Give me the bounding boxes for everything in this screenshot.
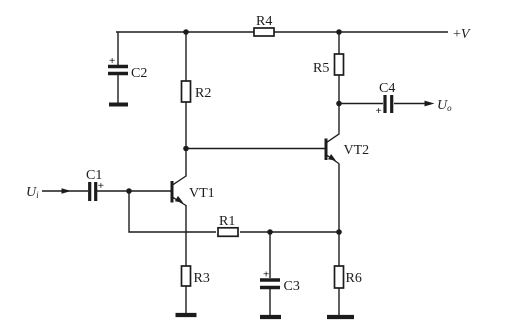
capacitor C2 xyxy=(108,55,147,81)
resistor R2 xyxy=(182,81,212,102)
capacitor C4 xyxy=(376,81,396,117)
svg-text:Uo: Uo xyxy=(437,98,452,113)
svg-text:R1: R1 xyxy=(219,214,235,229)
transistor VT2 xyxy=(326,131,369,164)
wire node A down to feedback rail xyxy=(129,191,216,232)
svg-text:C3: C3 xyxy=(284,279,300,294)
node junction C3 top xyxy=(267,229,273,235)
svg-text:C1: C1 xyxy=(86,168,102,183)
wire R3 to ground xyxy=(185,286,187,314)
svg-text:+V: +V xyxy=(453,27,471,42)
node A after C1 xyxy=(126,188,132,194)
ground (R3) xyxy=(176,313,197,317)
wire C2 branch vertical xyxy=(117,32,119,65)
svg-text:+: + xyxy=(376,105,382,117)
svg-text:+: + xyxy=(109,55,115,67)
svg-text:VT2: VT2 xyxy=(344,143,370,158)
svg-text:R4: R4 xyxy=(256,14,272,29)
capacitor C3 xyxy=(260,269,300,295)
wire C3 top xyxy=(269,232,271,278)
wire VT1 emitter down to R3 xyxy=(185,205,187,266)
svg-text:VT1: VT1 xyxy=(189,186,215,201)
wire R2 top xyxy=(185,32,187,81)
resistor R3 xyxy=(182,266,210,286)
svg-text:+: + xyxy=(263,269,269,281)
wire C4 output right xyxy=(394,103,425,105)
wire C4 output left xyxy=(339,103,383,105)
ground (C2) xyxy=(109,103,128,107)
output arrow xyxy=(425,101,435,107)
resistor R4 xyxy=(254,14,274,36)
svg-text:R3: R3 xyxy=(194,271,210,286)
input arrow xyxy=(62,188,72,194)
wire R6 to ground xyxy=(338,288,340,316)
svg-text:Ui: Ui xyxy=(26,185,39,200)
ground (R6) xyxy=(327,315,354,319)
svg-text:C4: C4 xyxy=(379,81,395,96)
wire VT1 collector vertical xyxy=(185,149,187,177)
wire C3 to ground xyxy=(269,289,271,316)
resistor R1 xyxy=(218,214,238,236)
node junction VT1 collector xyxy=(183,146,189,152)
resistor R6 xyxy=(335,266,362,288)
wire node to VT2 base xyxy=(186,148,325,150)
wire R6 top xyxy=(338,232,340,266)
capacitor C1 xyxy=(86,168,104,201)
svg-text:R2: R2 xyxy=(195,86,211,101)
wire C2 to ground xyxy=(117,75,119,103)
ground (C3) xyxy=(260,315,281,319)
svg-text:R5: R5 xyxy=(313,61,329,76)
svg-text:C2: C2 xyxy=(131,66,147,81)
wire VT2 emitter down to rail xyxy=(338,164,340,232)
node junction top R2 xyxy=(183,29,189,35)
resistor R5 xyxy=(313,54,344,76)
wire R1 right to R6 node xyxy=(240,231,339,233)
wire R5 bottom to VT2 collector node xyxy=(338,75,340,104)
wire VT2 collector vertical xyxy=(338,104,340,131)
node junction VT2 collector xyxy=(336,101,342,107)
wire input to C1 xyxy=(42,190,88,192)
node junction R6 top xyxy=(336,229,342,235)
node junction top R5 xyxy=(336,29,342,35)
wire C1 to VT1 base xyxy=(97,190,171,192)
transistor VT1 xyxy=(172,176,215,206)
wire R2 bottom to collector node xyxy=(185,102,187,149)
wire R5 top xyxy=(338,32,340,54)
wire top supply rail xyxy=(116,31,448,33)
svg-text:R6: R6 xyxy=(346,271,362,286)
